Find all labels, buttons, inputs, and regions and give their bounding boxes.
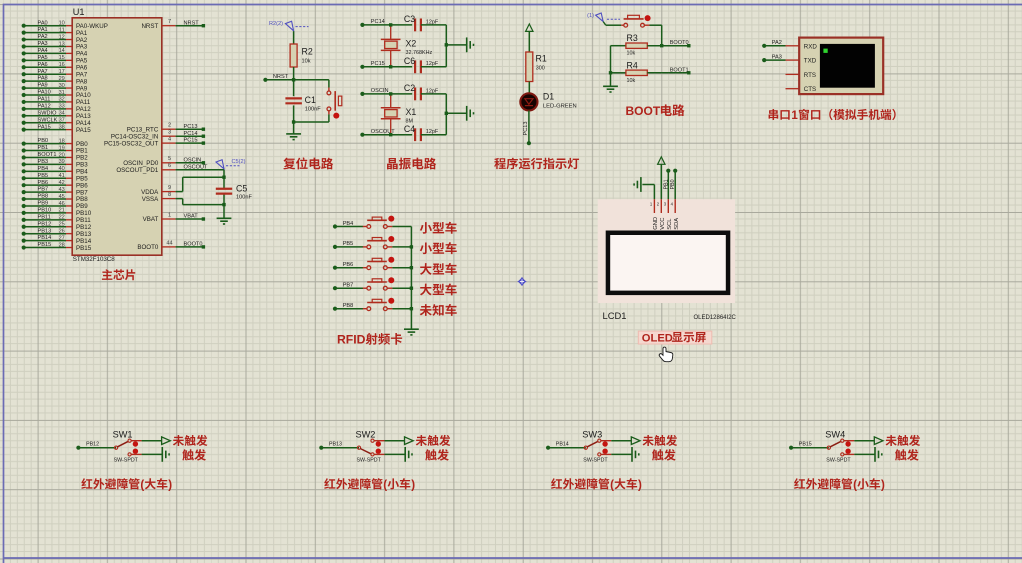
wire SW2 to ground terminal [385,453,406,455]
arrow terminal 未触发 of SW1 [162,437,171,445]
svg-text:OLED: OLED [642,332,673,344]
svg-text:42: 42 [59,180,65,186]
common vertical wire of RFID buttons [410,227,412,330]
svg-text:PC15: PC15 [184,138,198,144]
svg-text:5: 5 [168,156,171,162]
junction PC15/crystal bottom [389,65,392,68]
U1 pin PB10 (21) net PB10 wire [22,208,92,218]
U1 pin PB4 (40) net PB4 wire [22,166,89,176]
ground of RFID buttons [404,328,419,330]
switch SW1 SW-SPDT [113,430,142,464]
svg-text:PB14: PB14 [556,442,569,448]
U1 pin PA15 (38) net PA15 wire [22,124,92,134]
svg-text:): ) [168,478,172,491]
U1 pin PA9 (30) net PA9 wire [22,83,88,93]
junction common vertical row 5 [410,307,413,310]
U1 pin VBAT (1) net VBAT wire [143,212,206,223]
svg-text:BOOT: BOOT [626,104,661,118]
svg-text:12pF: 12pF [426,129,439,135]
ground of reset circuit [286,122,301,140]
svg-text:7: 7 [168,19,171,25]
node PB15 wire [789,442,829,450]
selection highlight region of OLED [598,199,735,303]
svg-text:SW1: SW1 [113,430,133,440]
node PB12 wire [76,442,116,450]
svg-text:21: 21 [59,208,65,214]
label RFID射频卡 [337,333,402,347]
svg-text:PA4: PA4 [38,48,48,54]
terminal C5(2) blue off-sheet connector [216,159,246,169]
capacitor C1 100nF [285,80,321,122]
svg-text:OSCOUT: OSCOUT [184,164,209,170]
red actuate dot PB7 button [388,277,394,283]
U1 pin PA10 (31) net PA10 wire [22,90,92,100]
U1 pin PB2 (20) net BOOT1 wire [22,152,89,162]
svg-text:PB0: PB0 [670,179,676,189]
svg-text:12pF: 12pF [426,88,439,94]
wire C5 vertical net [223,170,225,219]
label 复位电路 [283,157,333,169]
svg-text:1: 1 [791,109,798,122]
svg-text:BOOT0: BOOT0 [137,244,159,251]
OLED display LCD1 OLED12864I2C [606,231,731,296]
svg-text:X2: X2 [406,39,417,49]
junction R4 left [609,71,612,74]
svg-text:VBAT: VBAT [184,214,199,220]
svg-text:SWDIO: SWDIO [38,110,58,116]
wire SW1 to arrow terminal [142,440,162,442]
svg-text:PB8: PB8 [343,303,354,309]
svg-text:17: 17 [59,69,65,75]
U1 pin PB15 (28) net PB15 wire [22,242,92,252]
svg-text:PB15: PB15 [799,442,812,448]
svg-text:PB15: PB15 [38,242,52,248]
pushbutton PB4 [363,217,393,228]
U1 pin PA13 (34) net SWDIO wire [22,110,92,120]
junction OSCIN/crystal top [389,92,392,95]
junction common vertical row 3 [410,266,413,269]
pushbutton BOOT [603,15,649,27]
red actuate dot PB6 button [388,257,394,263]
svg-text:39: 39 [59,159,65,165]
junction common vertical row 4 [410,287,413,290]
node PA2 wire [762,40,799,48]
ground (rotated) for X2 [466,37,468,52]
node PB5 wire [333,241,363,249]
svg-text:19: 19 [59,145,65,151]
svg-text:1: 1 [168,212,171,218]
svg-text:SW3: SW3 [582,430,602,440]
svg-text:(: ( [610,478,614,491]
junction R3 right [660,44,663,47]
U1 pin OSCIN_PD0 (5) net OSCIN wire [123,156,205,167]
U1 pin VDDA (9) wire [141,185,183,196]
svg-text:SW-SPDT: SW-SPDT [357,458,382,464]
U1 pin PC14-OSC32_IN (3) net PC14 wire [111,130,205,141]
U1 pin PA4 (14) net PA4 wire [22,48,88,58]
svg-text:100nF: 100nF [305,106,321,112]
svg-text:R3: R3 [627,33,638,43]
U1 pin PA5 (15) net PA5 wire [22,55,88,65]
svg-text:PA9: PA9 [38,83,48,89]
node OSCIN wire [360,88,412,96]
terminal screen [820,44,875,88]
svg-text:PA5: PA5 [38,55,48,61]
wire right side caps to ground [446,25,466,67]
label 未触发 of SW3 [643,435,678,446]
svg-text:PB10: PB10 [38,208,52,214]
U1 pin PA0-WKUP (10) net PA0 wire [22,20,108,30]
label 红外避障管(小车) [324,478,415,491]
svg-text:PB12: PB12 [86,442,99,448]
svg-text:LCD1: LCD1 [603,310,627,321]
U1 pin PB3 (39) net PB3 wire [22,159,89,169]
svg-text:PB8: PB8 [38,194,49,200]
svg-text:38: 38 [59,124,65,130]
arrow terminal 未触发 of SW2 [405,437,414,445]
svg-text:26: 26 [59,228,65,234]
resistor R1 300 [526,52,547,93]
label 触发 of SW2 [425,449,449,460]
svg-text:28: 28 [59,242,65,248]
blue origin marker [518,277,527,286]
switch SW2 SW-SPDT [356,430,385,464]
svg-text:PB11: PB11 [38,214,51,220]
svg-text:PC13_RTC: PC13_RTC [127,126,159,133]
svg-text:PB14: PB14 [38,235,52,241]
svg-text:D1: D1 [543,91,554,101]
label OLED显示屏 with highlight box [638,331,712,344]
svg-text:30: 30 [59,83,65,89]
wire right side caps to ground [446,94,466,135]
wire D1 to PC13 net [527,111,531,146]
crystal X2 32.768KHz [381,25,433,67]
svg-text:PA2: PA2 [38,34,48,40]
svg-text:12: 12 [59,34,65,40]
svg-text:GND: GND [653,217,659,230]
junction right vertical [445,112,448,115]
wire PB8 button to common [392,308,411,310]
svg-text:40: 40 [59,166,65,172]
U1 pin PA12 (33) net PA12 wire [22,103,92,113]
red actuate dot of reset button [333,113,339,119]
capacitor C2 12pF [404,83,446,100]
svg-text:): ) [411,478,415,491]
svg-text:VDDA: VDDA [141,189,159,196]
svg-text:C6: C6 [404,56,415,66]
virtual terminal CTS pin stub [786,88,800,90]
svg-text:(1): (1) [587,13,594,19]
svg-text:SW2: SW2 [356,430,376,440]
U1 pin NRST (7) net NRST wire [141,19,205,30]
wire SW4 to arrow terminal [854,440,874,442]
wire left vertical R3/R4 to ground [610,46,612,87]
svg-text:20: 20 [59,152,65,158]
wire PB4 button to common [392,226,411,228]
wire SDA net PB0 [673,169,677,200]
node PB4 wire [333,221,363,229]
U1 pin PA2 (12) net PA2 wire [22,34,88,44]
svg-text:PB15: PB15 [76,245,92,252]
arrow terminal 未触发 of SW3 [631,437,640,445]
svg-text:RTS: RTS [804,72,816,79]
svg-text:LED-GREEN: LED-GREEN [543,104,577,110]
switch SW3 SW-SPDT [582,430,611,464]
svg-text:44: 44 [166,240,172,246]
wire PB5 button to common [392,246,411,248]
svg-text:): ) [638,478,642,491]
svg-text:(: ( [140,478,144,491]
junction C1 bottom [292,120,295,123]
wire SW3 to arrow terminal [611,440,631,442]
resistor R3 10k [611,33,691,57]
U1 pin VSSA (8) wire [142,192,183,203]
svg-text:SW-SPDT: SW-SPDT [114,458,139,464]
svg-text:34: 34 [59,111,65,117]
svg-text:PC15: PC15 [371,61,385,67]
svg-text:13: 13 [59,41,65,47]
U1 pin PA8 (29) net PA8 wire [22,76,88,86]
svg-text:43: 43 [59,187,65,193]
svg-text:RFID: RFID [337,333,366,347]
svg-text:10k: 10k [302,59,311,65]
U1 pin PB9 (46) net PB9 wire [22,201,89,211]
svg-text:PB4: PB4 [343,221,354,227]
svg-text:PB5: PB5 [38,173,49,179]
svg-text:TXD: TXD [804,58,817,65]
junction common vertical row 2 [410,245,413,248]
svg-text:BOOT0: BOOT0 [184,242,203,248]
svg-text:PC14: PC14 [371,19,385,25]
svg-text:41: 41 [59,173,65,179]
svg-text:PA11: PA11 [38,97,51,103]
svg-text:9: 9 [168,185,171,191]
svg-text:C5(2): C5(2) [232,159,246,165]
svg-text:SDA: SDA [674,218,680,230]
node PB14 wire [546,442,586,450]
svg-text:OSCIN_PD0: OSCIN_PD0 [123,160,159,167]
svg-text:PB0: PB0 [38,138,49,144]
arrow terminal 未触发 of SW4 [874,437,883,445]
U1 pin PA3 (13) net PA3 wire [22,41,88,51]
svg-text:X1: X1 [406,107,417,117]
junction C5 top [222,176,225,179]
svg-text:C4: C4 [404,124,415,134]
ground (rotated) for X1 [466,106,468,121]
label 未知车 [420,304,457,316]
svg-text:16: 16 [59,62,65,68]
node PB6 wire [333,262,363,270]
svg-text:4: 4 [168,137,171,143]
svg-text:46: 46 [59,201,65,207]
svg-text:PB13: PB13 [329,442,342,448]
capacitor C5 100nF [216,183,253,200]
svg-text:SWCLK: SWCLK [38,117,58,123]
U1 pin PB0 (18) net PB0 wire [22,138,89,148]
node OSCOUT wire [360,129,412,137]
capacitor C6 12pF [404,56,446,73]
svg-text:PC15-OSC32_OUT: PC15-OSC32_OUT [104,140,159,147]
ground below C5 [217,217,232,219]
ground terminal 触发 of SW3 (rotated) [631,447,633,462]
svg-text:2: 2 [168,123,171,129]
svg-text:PA8: PA8 [38,76,48,82]
label 未触发 of SW1 [173,435,208,446]
svg-text:R2: R2 [302,47,313,57]
pushbutton PB7 [363,279,393,290]
junction OSCOUT/crystal bottom [389,133,392,136]
svg-text:PA1: PA1 [38,27,48,33]
ground terminal 触发 of SW4 (rotated) [874,447,876,462]
svg-text:PA0: PA0 [38,20,48,26]
svg-text:29: 29 [59,76,65,82]
U1 pin PB5 (41) net PB5 wire [22,173,89,183]
svg-text:PB6: PB6 [38,180,49,186]
U1 pin PB8 (45) net PB8 wire [22,194,89,204]
label 触发 of SW1 [182,449,206,460]
U1 pin BOOT0 (44) net BOOT0 wire [137,240,205,251]
svg-text:PB12: PB12 [38,221,52,227]
power terminal above R1 [526,24,533,52]
svg-text:VCC: VCC [660,218,666,230]
red actuate dot of BOOT button [645,15,651,21]
virtual terminal RTS pin stub [786,73,800,75]
U1 pin OSCOUT_PD1 (6) net OSCOUT wire [116,163,224,174]
svg-text:BOOT1: BOOT1 [38,152,57,158]
U1 chip label 主芯片 [102,269,135,280]
svg-text:CTS: CTS [804,86,816,93]
svg-text:PC13: PC13 [523,122,529,136]
U1 pin PB7 (43) net PB7 wire [22,187,89,197]
node PC14 wire [360,19,412,27]
U1 pin PB14 (27) net PB14 wire [22,235,92,245]
svg-text:PB6: PB6 [343,262,354,268]
svg-text:10: 10 [59,21,65,27]
svg-text:PC13: PC13 [184,124,198,130]
svg-text:PB9: PB9 [38,201,49,207]
ground terminal 触发 of SW1 (rotated) [161,447,163,462]
svg-text:OSCIN: OSCIN [371,88,389,94]
terminal cursor [823,49,827,53]
svg-text:BOOT1: BOOT1 [670,67,689,73]
U1 pin PB12 (25) net PB12 wire [22,221,92,231]
svg-text:18: 18 [59,138,65,144]
U1 pin PB13 (26) net PB13 wire [22,228,92,238]
label 小型车 [420,222,457,234]
svg-text:SW4: SW4 [825,430,845,440]
svg-text:PA15: PA15 [38,124,51,130]
LED D1 LED-GREEN [520,91,576,110]
svg-text:PB7: PB7 [38,187,49,193]
label 小型车 [420,242,457,254]
switch SW4 SW-SPDT [825,430,854,464]
svg-text:32: 32 [59,97,65,103]
node NRST wire [263,74,329,82]
label 大型车 [420,283,457,295]
red actuate dot PB8 button [388,298,394,304]
svg-text:R1: R1 [536,54,547,64]
node PA3 wire [762,55,799,63]
crystal X1 8M [381,94,417,135]
svg-text:PA3: PA3 [38,41,48,47]
svg-text:37: 37 [59,118,65,124]
svg-text:10k: 10k [627,78,636,84]
svg-text:3: 3 [168,130,171,136]
svg-text:STM32F103C8: STM32F103C8 [73,256,116,263]
wire SW4 to ground terminal [854,453,875,455]
svg-text:SW-SPDT: SW-SPDT [826,458,851,464]
wire VSSA to C5 node [183,199,224,205]
svg-text:C2: C2 [404,83,415,93]
svg-text:PA2: PA2 [772,40,782,46]
LCD1 pins 1-4 GND VCC SCL SDA [650,199,680,230]
node PC15 wire [360,61,412,69]
wire VDDA to C5 node [183,177,224,191]
svg-text:NRST: NRST [273,74,289,80]
wire C1 bottom to button bottom [294,121,329,123]
U1 pin PC15-OSC32_OUT (4) net PC15 wire [104,137,205,148]
svg-text:10k: 10k [627,51,636,57]
svg-text:PB1: PB1 [663,179,669,189]
svg-text:C5: C5 [236,183,247,193]
svg-text:32.768KHz: 32.768KHz [406,50,433,56]
svg-text:33: 33 [59,104,65,110]
U1 pin PB6 (42) net PB6 wire [22,180,89,190]
label 程序运行指示灯 [494,158,579,170]
label 红外避障管(小车) [794,478,885,491]
label 触发 of SW3 [652,449,676,460]
label 晶振电路 [387,158,436,170]
U1 pin PA14 (37) net SWCLK wire [22,117,92,127]
svg-text:14: 14 [59,48,65,54]
node PB7 wire [333,283,363,291]
svg-text:PA10: PA10 [38,90,51,96]
U1 pin PA1 (11) net PA1 wire [22,27,88,37]
label 串口1窗口（模拟手机端） [769,109,896,122]
svg-text:25: 25 [59,222,65,228]
svg-text:300: 300 [536,66,545,72]
svg-text:22: 22 [59,215,65,221]
U1 pin PC13_RTC (2) net PC13 wire [127,123,205,134]
capacitor C4 12pF [404,124,446,141]
wire SW3 to ground terminal [611,453,632,455]
ground at OLED GND pin (rotated) [634,177,654,199]
svg-text:BOOT0: BOOT0 [670,40,689,46]
svg-text:PB13: PB13 [38,228,52,234]
capacitor C3 12pF [404,14,446,31]
svg-text:PB5: PB5 [343,241,354,247]
svg-text:27: 27 [59,235,65,241]
U1 pin PA11 (32) net PA11 wire [22,97,91,107]
svg-text:8M: 8M [406,119,414,125]
svg-text:NRST: NRST [184,20,200,26]
junction PC14/crystal top [389,23,392,26]
pushbutton PB8 [363,299,393,310]
svg-text:SW-SPDT: SW-SPDT [583,458,608,464]
label 红外避障管(大车) [551,478,642,491]
ground of BOOT circuit [603,85,618,87]
label 未触发 of SW2 [416,435,451,446]
svg-text:PA6: PA6 [38,62,48,68]
svg-text:C3: C3 [404,14,415,24]
svg-text:PA12: PA12 [38,103,51,109]
U1 pin PA7 (17) net PA7 wire [22,69,88,79]
svg-text:C1: C1 [305,95,316,105]
svg-text:12pF: 12pF [426,19,439,25]
wire PB7 button to common [392,287,411,289]
red actuate dot PB5 button [388,236,394,242]
svg-text:U1: U1 [73,7,85,17]
